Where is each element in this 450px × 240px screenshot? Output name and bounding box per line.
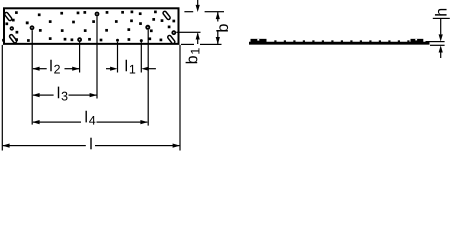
label h bbox=[435, 9, 447, 16]
extension line l-left bbox=[2, 45, 3, 151]
label b bbox=[216, 24, 228, 31]
screw hole l2-left reference bbox=[30, 25, 35, 30]
nail holes row 3 bbox=[16, 28, 153, 33]
extension line l4-right bbox=[148, 30, 149, 126]
plate top edge extension (b) bbox=[184, 11, 193, 12]
dimension l3 line bbox=[33, 95, 54, 96]
h top tick bbox=[433, 18, 450, 19]
dimension l2 right arrow bbox=[72, 67, 79, 71]
slot top-right bbox=[162, 11, 170, 21]
dimension l2 left arrow bbox=[32, 67, 39, 71]
screw hole right reference bbox=[171, 30, 176, 35]
dimension b bottom arrow bbox=[216, 37, 220, 44]
side view bar bbox=[249, 42, 430, 45]
dimension l4 right arrow bbox=[140, 120, 147, 124]
nail holes row 1 bbox=[15, 11, 157, 17]
slot bottom-right bbox=[167, 35, 175, 45]
extension line l1-right bbox=[141, 42, 142, 72]
dimension l right arrow bbox=[173, 144, 180, 148]
extension line l-right bbox=[179, 45, 180, 151]
label b1 bbox=[186, 48, 200, 63]
h bottom extension line bbox=[430, 45, 445, 46]
extension line l3-right bbox=[96, 16, 97, 98]
dimension l1 left arrow (outside) bbox=[106, 68, 111, 69]
dimension b1 bottom arrow (outside, pointing up) bbox=[197, 34, 198, 45]
nail hole l1-left reference bbox=[116, 39, 119, 42]
screw hole left bbox=[10, 26, 14, 30]
dimension l3 left arrow bbox=[32, 93, 39, 97]
label l2 bbox=[50, 60, 60, 74]
h top extension line bbox=[426, 41, 445, 42]
slot top-left bbox=[4, 12, 12, 22]
extension line l1-left bbox=[117, 42, 118, 73]
dimension b1 top arrow (outside, pointing down) bbox=[197, 0, 198, 6]
plate hole-row extension (b1, from right ring) bbox=[176, 32, 200, 33]
nail hole mid-left bbox=[26, 22, 29, 25]
label l1 bbox=[126, 60, 136, 74]
slot bottom-left bbox=[9, 34, 17, 44]
dimension b top arrow bbox=[216, 12, 220, 19]
dimension l1 right arrow (outside) bbox=[148, 68, 156, 69]
extension line l2-right bbox=[79, 42, 80, 72]
dimension h up arrow bbox=[440, 52, 441, 58]
screw hole l3 top reference bbox=[95, 12, 100, 17]
nail holes row 4 bbox=[2, 37, 162, 42]
label l4 bbox=[86, 111, 96, 125]
plate outline (front view) bbox=[4, 8, 179, 44]
extension line l2/l3/l4-left (from mid-plate ring) bbox=[32, 30, 33, 124]
dimension l left arrow bbox=[2, 144, 9, 148]
nail hole l1-right reference bbox=[140, 39, 143, 42]
plate bottom edge extension (b) bbox=[181, 44, 194, 45]
label l3 bbox=[58, 87, 68, 101]
side view left tab bbox=[251, 39, 267, 42]
label l bbox=[90, 138, 91, 150]
side view punch ticks bbox=[274, 40, 409, 42]
dimension h down arrow bbox=[440, 19, 441, 35]
screw hole l4-right reference bbox=[145, 25, 150, 30]
dimension l2 line bbox=[33, 68, 47, 69]
dimension l line bbox=[3, 145, 86, 146]
screw hole l2-right reference bbox=[77, 37, 82, 42]
dimension b line bbox=[217, 12, 218, 22]
dimension l3 right arrow bbox=[90, 93, 97, 97]
dimension l4 line bbox=[33, 122, 81, 123]
nail holes row 2 bbox=[5, 18, 175, 28]
dimension l4 left arrow bbox=[32, 120, 39, 124]
side view right tab bbox=[411, 39, 424, 42]
